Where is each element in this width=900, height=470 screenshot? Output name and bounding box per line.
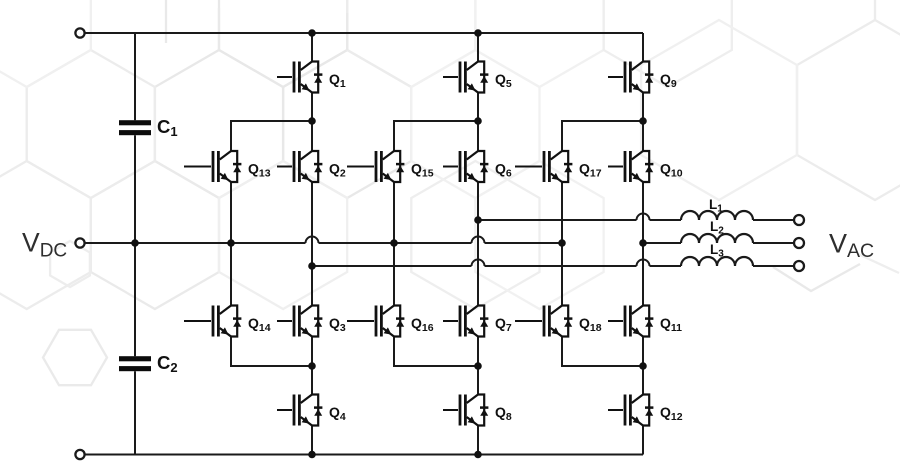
capacitor C2 xyxy=(119,352,178,375)
junction leg A / top bus xyxy=(308,29,316,37)
junction phase C output node xyxy=(639,239,647,247)
junction Q11-Q12 node C xyxy=(639,362,647,370)
junction clamp A / midpoint bus xyxy=(227,239,235,247)
wire top DC+ bus xyxy=(85,32,643,34)
wire clamp B lower wire (Q16 emitter to Q7/Q8 node) xyxy=(394,337,478,367)
junction Q1-Q2 node A xyxy=(308,117,316,125)
inductor L2 xyxy=(681,219,753,243)
transistor Q7 xyxy=(443,306,512,337)
wire capacitor column (C1/C2 branch) xyxy=(134,33,136,455)
junction clamp B / midpoint bus xyxy=(390,239,398,247)
transistor Q4 xyxy=(277,395,346,426)
junction leg A / bottom bus xyxy=(308,451,316,459)
wire phase leg A vertical xyxy=(311,33,313,455)
wire L3 to AC terminal 3 xyxy=(753,265,794,267)
inductor L3 xyxy=(681,242,753,266)
transistor Q2 xyxy=(277,151,346,182)
terminal AC phase 1 (right) xyxy=(794,215,804,225)
terminal DC- (bottom left) xyxy=(75,450,84,459)
junction phase B output node xyxy=(474,216,482,224)
transistor Q9 xyxy=(608,62,677,93)
wire bottom DC- bus xyxy=(85,454,643,456)
junction Q5-Q6 node B xyxy=(474,117,482,125)
transistor Q18 xyxy=(515,306,602,337)
transistor Q12 xyxy=(608,395,683,426)
wire L2 to AC terminal 2 xyxy=(753,242,794,244)
wire clamp A lower wire (Q14 emitter to Q3/Q4 node) xyxy=(231,337,312,367)
inductor L1 xyxy=(681,197,753,220)
wire clamp B upper wire (Q15 collector to Q5/Q6 node) xyxy=(394,121,478,151)
junction leg B / bottom bus xyxy=(474,451,482,459)
transistor Q13 xyxy=(184,151,271,182)
wire clamp A column (Q13 emitter - midpoint - Q14 collector) xyxy=(230,182,232,306)
transistor Q8 xyxy=(443,395,512,426)
wire clamp C upper wire (Q17 collector to Q9/Q10 node) xyxy=(562,121,643,151)
terminal DC+ (top left) xyxy=(75,28,84,37)
transistor Q1 xyxy=(277,62,346,93)
transistor Q11 xyxy=(608,306,682,337)
wire clamp A upper wire (Q13 collector to Q1/Q2 node) xyxy=(231,121,312,151)
transistor Q6 xyxy=(443,151,512,182)
terminal AC phase 2 (right) xyxy=(794,238,804,248)
junction Q9-Q10 node C xyxy=(639,117,647,125)
junction clamp C / midpoint bus xyxy=(558,239,566,247)
junction Q7-Q8 node B xyxy=(474,362,482,370)
transistor Q5 xyxy=(443,62,512,93)
wire L1 to AC terminal 1 xyxy=(753,219,794,221)
wire phase A output line to L3 xyxy=(312,260,681,267)
wire clamp C column (Q17 emitter - midpoint - Q18 collector) xyxy=(561,182,563,306)
wire DC midpoint bus xyxy=(85,237,562,243)
transistor Q16 xyxy=(347,306,434,337)
wire phase C output line to L2 xyxy=(643,242,681,244)
capacitor C1 xyxy=(119,116,178,139)
junction leg B / top bus xyxy=(474,29,482,37)
terminal AC phase 3 (right) xyxy=(794,261,804,271)
junction cap column / midpoint bus xyxy=(131,239,139,247)
wire clamp B column (Q15 emitter - midpoint - Q16 collector) xyxy=(393,182,395,306)
wire clamp C lower wire (Q18 emitter to Q11/Q12 node) xyxy=(562,337,643,367)
transistor Q3 xyxy=(277,306,346,337)
wire phase leg C vertical xyxy=(642,33,644,455)
wire phase B output line to L1 xyxy=(478,214,681,221)
terminal DC mid (left) xyxy=(75,238,84,247)
transistor Q10 xyxy=(608,151,683,182)
transistor Q17 xyxy=(515,151,602,182)
junction Q3-Q4 node A xyxy=(308,362,316,370)
wire phase leg B vertical xyxy=(477,33,479,455)
transistor Q15 xyxy=(347,151,434,182)
transistor Q14 xyxy=(184,306,271,337)
junction phase A output node xyxy=(308,262,316,270)
